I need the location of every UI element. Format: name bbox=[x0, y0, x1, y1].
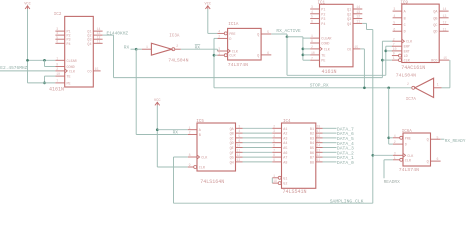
svg-text:IC1A: IC1A bbox=[228, 23, 239, 27]
svg-text:12: 12 bbox=[443, 21, 447, 25]
svg-text:PE: PE bbox=[321, 60, 325, 64]
svg-text:CO: CO bbox=[347, 48, 351, 52]
svg-text:2: 2 bbox=[176, 44, 178, 48]
svg-text:9: 9 bbox=[273, 158, 275, 162]
IC6A pin notQ bbox=[431, 160, 441, 162]
svg-text:QE: QE bbox=[230, 147, 234, 151]
svg-text:2: 2 bbox=[218, 35, 220, 39]
IC9 pin CLR bbox=[392, 59, 399, 61]
svg-text:74AC161N: 74AC161N bbox=[401, 65, 425, 71]
wire STOP_RX to IC1A D and CLR bbox=[214, 37, 217, 39]
svg-text:14: 14 bbox=[443, 7, 447, 11]
svg-text:12: 12 bbox=[356, 15, 360, 19]
svg-text:IC4: IC4 bbox=[283, 120, 291, 124]
IC2 control pins CLEAR COND CLK TE PE bbox=[55, 59, 64, 61]
svg-text:ENT: ENT bbox=[404, 50, 410, 54]
svg-text:15: 15 bbox=[354, 45, 358, 49]
svg-text:11: 11 bbox=[316, 158, 320, 162]
svg-text:1: 1 bbox=[56, 56, 58, 60]
wire VCC rail down left side bbox=[27, 9, 29, 83]
svg-text:1: 1 bbox=[146, 45, 148, 49]
svg-text:READRX: READRX bbox=[384, 179, 401, 185]
svg-text:1: 1 bbox=[218, 51, 220, 55]
wire to IC2 CLEAR pin bbox=[28, 59, 56, 61]
svg-text:Q4: Q4 bbox=[347, 23, 351, 27]
svg-text:9: 9 bbox=[311, 39, 313, 43]
svg-text:PRE: PRE bbox=[405, 137, 411, 141]
svg-text:IC3A: IC3A bbox=[169, 35, 180, 39]
flip-flop IC1A 74LS74N body bbox=[228, 28, 262, 60]
svg-text:12: 12 bbox=[316, 153, 320, 157]
svg-text:7: 7 bbox=[56, 79, 58, 83]
svg-text:COND: COND bbox=[67, 66, 75, 70]
svg-text:QD: QD bbox=[230, 142, 234, 146]
wire RX_ACTIVE down to enable rail bbox=[286, 37, 288, 76]
IC6A pin CLK bbox=[393, 154, 403, 156]
svg-text:B7: B7 bbox=[310, 157, 314, 161]
svg-text:CLEAR: CLEAR bbox=[67, 60, 77, 64]
svg-text:15: 15 bbox=[443, 56, 447, 60]
svg-text:VCC: VCC bbox=[24, 3, 30, 7]
svg-text:4: 4 bbox=[218, 30, 220, 34]
svg-text:1: 1 bbox=[394, 156, 396, 160]
svg-text:74LS74N: 74LS74N bbox=[399, 167, 419, 173]
svg-text:ENP: ENP bbox=[404, 46, 410, 50]
svg-text:1: 1 bbox=[273, 174, 275, 178]
svg-text:Q: Q bbox=[257, 34, 259, 38]
node junction RX bbox=[135, 48, 138, 51]
wire RX to inverter input bbox=[136, 48, 142, 50]
svg-text:CLR: CLR bbox=[229, 55, 235, 59]
IC1 pins P0-P3 bbox=[310, 8, 319, 10]
node junction IC6A CLK branch bbox=[371, 154, 374, 157]
wire IC9 RCO to inverter IC7A input bbox=[449, 60, 451, 88]
svg-text:10: 10 bbox=[393, 47, 397, 51]
flip-flop IC6A 74LS74N body bbox=[403, 133, 431, 166]
svg-text:CO: CO bbox=[87, 70, 91, 74]
svg-text:STOP_RX: STOP_RX bbox=[310, 82, 329, 88]
IC4 enable pins G1 G2 bbox=[272, 177, 278, 179]
IC1A pin CLK bbox=[217, 50, 227, 52]
svg-text:CLK: CLK bbox=[69, 70, 76, 74]
svg-text:7: 7 bbox=[273, 148, 275, 152]
svg-text:CLK: CLK bbox=[201, 157, 208, 161]
svg-text:74LS74N: 74LS74N bbox=[228, 62, 248, 68]
node junction RX_ACTIVE branch bbox=[286, 35, 289, 38]
wire clock input net E2.4576MHZ to IC2 CLK bbox=[0, 70, 55, 72]
svg-text:6: 6 bbox=[267, 51, 269, 55]
wire RX_ACTIVE down to IC1 control pins bbox=[302, 37, 304, 60]
svg-text:CLR: CLR bbox=[405, 159, 411, 163]
wire VCC to IC5 CLR bbox=[157, 166, 188, 168]
svg-text:Q2: Q2 bbox=[347, 13, 351, 17]
svg-text:B: B bbox=[199, 134, 201, 138]
svg-text:IC2: IC2 bbox=[54, 13, 62, 17]
svg-text:RX_ACTIVE: RX_ACTIVE bbox=[276, 28, 301, 34]
svg-text:PRE: PRE bbox=[229, 33, 235, 37]
svg-text:4161N: 4161N bbox=[322, 69, 337, 75]
svg-text:B4: B4 bbox=[310, 142, 314, 146]
svg-text:TE: TE bbox=[321, 54, 325, 58]
IC5 pin CLR bbox=[188, 166, 194, 168]
svg-text:8: 8 bbox=[273, 153, 275, 157]
inverter IC3A 74LS04N bbox=[151, 43, 171, 55]
svg-text:QH: QH bbox=[230, 161, 234, 165]
svg-text:6: 6 bbox=[393, 27, 395, 31]
svg-text:13: 13 bbox=[236, 158, 240, 162]
svg-text:QB: QB bbox=[433, 17, 437, 21]
shift register IC5 74LS164N body bbox=[197, 123, 236, 171]
svg-text:A6: A6 bbox=[283, 152, 287, 156]
IC1A pin CLR bbox=[217, 54, 224, 56]
svg-text:Q3: Q3 bbox=[347, 18, 351, 22]
svg-text:2: 2 bbox=[189, 131, 191, 135]
svg-text:QB: QB bbox=[230, 133, 234, 137]
svg-text:4: 4 bbox=[273, 134, 275, 138]
svg-text:G1: G1 bbox=[283, 177, 287, 181]
svg-text:11: 11 bbox=[236, 148, 240, 152]
wire STOP_RX down to IC6A PRE and D bbox=[388, 88, 390, 144]
svg-text:A2: A2 bbox=[283, 133, 287, 137]
svg-text:5: 5 bbox=[311, 15, 313, 19]
svg-text:QA: QA bbox=[230, 128, 235, 132]
svg-text:SAMPLING_CLK: SAMPLING_CLK bbox=[330, 199, 364, 205]
svg-text:COND: COND bbox=[321, 43, 329, 47]
svg-text:4: 4 bbox=[394, 134, 396, 138]
svg-text:4: 4 bbox=[311, 10, 313, 14]
wire SAMPLING_CLK to IC5 CLK bbox=[174, 156, 188, 158]
IC1A pin notQ bbox=[261, 54, 271, 56]
IC2 pins P0-P3 bbox=[55, 30, 64, 32]
svg-text:6: 6 bbox=[238, 139, 240, 143]
IC9 pin RCO bbox=[439, 59, 449, 61]
IC2 pin CO bbox=[93, 70, 100, 72]
svg-text:5: 5 bbox=[238, 134, 240, 138]
IC6A pin PRE bbox=[393, 137, 400, 139]
svg-text:CLR: CLR bbox=[404, 60, 410, 64]
wire inverter output to IC1A CLK bbox=[181, 48, 218, 50]
wire to IC9 CLR bbox=[382, 59, 392, 61]
svg-text:13: 13 bbox=[356, 10, 360, 14]
svg-text:Q: Q bbox=[427, 161, 429, 165]
svg-text:RCO: RCO bbox=[431, 60, 437, 64]
svg-text:Q: Q bbox=[427, 139, 429, 143]
svg-text:A1: A1 bbox=[283, 128, 287, 132]
wire branch to IC2 TE pin bbox=[45, 75, 56, 77]
svg-text:D: D bbox=[404, 31, 406, 35]
power VCC symbol above IC1A bbox=[205, 6, 210, 9]
wire SAMPLING_CLK to IC6A CLK bbox=[373, 154, 393, 156]
IC1A pin D bbox=[217, 37, 227, 39]
svg-text:13: 13 bbox=[443, 14, 447, 18]
svg-text:6: 6 bbox=[311, 20, 313, 24]
IC1 pin CO bbox=[353, 48, 360, 50]
IC5 pin CLK bbox=[188, 156, 197, 158]
svg-text:B8: B8 bbox=[310, 161, 314, 165]
svg-text:7: 7 bbox=[311, 56, 313, 60]
svg-text:RX: RX bbox=[195, 44, 201, 50]
IC9 pin CLK bbox=[392, 40, 402, 42]
svg-text:5: 5 bbox=[436, 135, 438, 139]
svg-text:RX_READY: RX_READY bbox=[445, 139, 466, 144]
node junction at PE wire bbox=[43, 82, 46, 85]
svg-text:CLK: CLK bbox=[407, 155, 414, 159]
svg-text:VCC: VCC bbox=[154, 99, 160, 103]
wire SAMPLING_CLK vertical bbox=[372, 30, 374, 204]
node junction CO/STOP_RX bbox=[363, 86, 366, 89]
svg-text:1: 1 bbox=[311, 34, 313, 38]
wire E1440KHZ rail to IC9 CLK bbox=[114, 77, 383, 79]
wire IC1 CO to STOP_RX rail bbox=[360, 48, 364, 50]
svg-text:P1: P1 bbox=[321, 9, 325, 13]
IC6A pin CLR bbox=[393, 159, 400, 161]
svg-text:PE: PE bbox=[67, 82, 71, 86]
svg-text:2: 2 bbox=[394, 140, 396, 144]
wire RX down to IC5 B input bbox=[135, 49, 137, 134]
svg-text:8: 8 bbox=[189, 153, 191, 157]
svg-text:17: 17 bbox=[316, 129, 320, 133]
IC1 pins Q0-Q3 bbox=[353, 8, 362, 10]
svg-text:QC: QC bbox=[433, 24, 437, 28]
svg-text:3: 3 bbox=[238, 124, 240, 128]
IC9 pin ENT bbox=[392, 50, 402, 52]
svg-text:6: 6 bbox=[56, 39, 58, 43]
power VCC symbol (top-left) bbox=[25, 6, 30, 9]
svg-text:15: 15 bbox=[316, 139, 320, 143]
IC5 pins QA-QH bbox=[236, 127, 243, 129]
svg-text:16: 16 bbox=[316, 134, 320, 138]
IC9 pin ENP bbox=[392, 45, 402, 47]
svg-text:Q1: Q1 bbox=[347, 9, 351, 13]
svg-text:11: 11 bbox=[356, 20, 360, 24]
svg-text:2: 2 bbox=[311, 45, 313, 49]
node junction IC6A branch bbox=[387, 86, 390, 89]
wire bus IC5 outputs to IC4 inputs bbox=[243, 127, 273, 129]
power VCC symbol above IC5 bbox=[155, 102, 160, 105]
wire VCC to IC1A PRE bbox=[207, 9, 209, 33]
svg-text:1: 1 bbox=[437, 83, 439, 87]
svg-text:CLR: CLR bbox=[199, 167, 205, 171]
node junction VCC/CLEAR bbox=[26, 59, 29, 62]
svg-text:11: 11 bbox=[443, 27, 447, 31]
svg-text:P3: P3 bbox=[321, 18, 325, 22]
svg-text:3: 3 bbox=[273, 129, 275, 133]
IC1 control pins bbox=[310, 37, 319, 39]
svg-text:3: 3 bbox=[311, 5, 313, 9]
IC6A pin Q bbox=[431, 138, 441, 140]
svg-text:9: 9 bbox=[189, 163, 191, 167]
wire enable rail to IC9 ENP/ENT bbox=[287, 74, 386, 76]
wire READRX to IC6A CLR bbox=[384, 159, 393, 161]
svg-text:6: 6 bbox=[273, 144, 275, 148]
svg-text:DATA_0: DATA_0 bbox=[337, 160, 354, 166]
inverter IC7A 74LS04N (pointing left) bbox=[415, 78, 434, 97]
svg-text:IC5: IC5 bbox=[196, 120, 204, 124]
wire branch to IC2 pin 9 bbox=[44, 60, 46, 66]
svg-text:B2: B2 bbox=[310, 133, 314, 137]
svg-text:RX: RX bbox=[124, 45, 130, 51]
svg-text:6: 6 bbox=[436, 157, 438, 161]
node junction CLR bbox=[213, 54, 216, 57]
svg-text:CLEAR: CLEAR bbox=[321, 38, 331, 42]
svg-text:G2: G2 bbox=[283, 183, 287, 187]
svg-text:19: 19 bbox=[273, 179, 277, 183]
svg-text:2: 2 bbox=[407, 82, 409, 86]
svg-text:E2.4576MHZ: E2.4576MHZ bbox=[0, 65, 27, 71]
svg-text:74LS04N: 74LS04N bbox=[168, 58, 188, 64]
svg-text:B1: B1 bbox=[310, 128, 314, 132]
node junction IC5 A bbox=[156, 128, 159, 131]
svg-text:IC1: IC1 bbox=[318, 2, 326, 6]
IC4 pins A1-A8 bbox=[272, 127, 281, 129]
IC5 pin B bbox=[188, 134, 197, 136]
node junction CLR branch bbox=[381, 59, 384, 62]
svg-text:A: A bbox=[404, 11, 407, 15]
IC5 pin A bbox=[188, 129, 197, 131]
svg-text:10: 10 bbox=[236, 144, 240, 148]
svg-text:12: 12 bbox=[236, 153, 240, 157]
wire VCC down to IC5 bbox=[156, 105, 158, 167]
wire STOP_RX rail bbox=[214, 87, 412, 89]
svg-text:LD: LD bbox=[404, 55, 408, 59]
IC9 pins QA-QD bbox=[439, 10, 448, 12]
svg-text:2: 2 bbox=[273, 124, 275, 128]
svg-text:QD: QD bbox=[433, 31, 437, 35]
svg-text:4: 4 bbox=[393, 14, 395, 18]
svg-text:1: 1 bbox=[393, 56, 395, 60]
svg-text:9: 9 bbox=[393, 52, 395, 56]
wire data output stubs and labels bbox=[323, 127, 337, 129]
svg-text:QF: QF bbox=[230, 152, 234, 156]
svg-text:A: A bbox=[199, 129, 202, 133]
svg-text:E1440KHZ: E1440KHZ bbox=[107, 30, 129, 36]
svg-text:4: 4 bbox=[238, 129, 240, 133]
svg-text:D: D bbox=[405, 144, 407, 148]
svg-text:QC: QC bbox=[230, 137, 234, 141]
svg-text:15: 15 bbox=[95, 67, 99, 71]
wire RX input stub bbox=[131, 48, 137, 50]
wire VCC to IC5 A bbox=[157, 129, 188, 131]
svg-text:IC7A: IC7A bbox=[406, 98, 417, 102]
svg-text:CLK: CLK bbox=[406, 41, 413, 45]
svg-text:18: 18 bbox=[316, 124, 320, 128]
wire E1440KHZ up to IC9 CLK bbox=[381, 41, 383, 77]
svg-text:A4: A4 bbox=[283, 142, 287, 146]
svg-text:Q: Q bbox=[257, 54, 259, 58]
svg-text:B6: B6 bbox=[310, 152, 314, 156]
svg-text:VCC: VCC bbox=[205, 3, 211, 7]
counter IC9 74AC161N body bbox=[402, 4, 439, 62]
svg-text:RX: RX bbox=[173, 130, 179, 136]
svg-text:B: B bbox=[404, 17, 406, 21]
svg-text:C: C bbox=[404, 24, 406, 28]
svg-text:2: 2 bbox=[393, 37, 395, 41]
svg-text:5: 5 bbox=[393, 21, 395, 25]
svg-text:B3: B3 bbox=[310, 137, 314, 141]
IC9 pins A-D bbox=[393, 10, 402, 12]
svg-text:10: 10 bbox=[56, 72, 60, 76]
svg-text:D: D bbox=[229, 38, 231, 42]
wire RX_READY from IC6A Q bbox=[441, 138, 445, 140]
wire E1440KHZ from IC2 Q1 bbox=[103, 34, 114, 36]
svg-text:1: 1 bbox=[189, 126, 191, 130]
buffer IC4 74LS541N body bbox=[282, 123, 316, 188]
svg-text:5: 5 bbox=[273, 139, 275, 143]
counter IC1 4161N body bbox=[320, 4, 354, 67]
svg-text:74LS164N: 74LS164N bbox=[200, 179, 224, 185]
svg-text:74LS541N: 74LS541N bbox=[283, 189, 307, 195]
svg-text:A8: A8 bbox=[283, 161, 287, 165]
svg-text:P4: P4 bbox=[321, 23, 325, 27]
wire VCC to IC2 PE pin bbox=[28, 82, 56, 84]
IC4 pins B1-B8 bbox=[316, 127, 323, 129]
svg-text:A3: A3 bbox=[283, 137, 287, 141]
svg-text:TE: TE bbox=[67, 76, 71, 80]
svg-text:4161N: 4161N bbox=[49, 87, 64, 93]
svg-text:5: 5 bbox=[267, 30, 269, 34]
IC6A pin D bbox=[393, 143, 403, 145]
IC1A pin PRE bbox=[217, 32, 224, 34]
IC9 pin LD bbox=[392, 55, 399, 57]
svg-text:A7: A7 bbox=[283, 157, 287, 161]
svg-text:14: 14 bbox=[316, 144, 320, 148]
svg-text:3: 3 bbox=[394, 151, 396, 155]
svg-text:2: 2 bbox=[56, 67, 58, 71]
IC1A pin Q bbox=[261, 33, 271, 35]
svg-text:IC6A: IC6A bbox=[402, 130, 413, 134]
IC2 pins Q0-Q3 bbox=[93, 30, 102, 32]
wire IC1 Q3 to sampling divider chain bbox=[362, 22, 366, 24]
svg-text:P2: P2 bbox=[321, 13, 325, 17]
svg-text:IC9: IC9 bbox=[400, 1, 408, 5]
svg-text:11: 11 bbox=[97, 39, 101, 43]
wire G1-G2 tie bbox=[271, 178, 273, 183]
svg-text:B5: B5 bbox=[310, 147, 314, 151]
svg-text:P4: P4 bbox=[67, 43, 71, 47]
svg-text:CLK: CLK bbox=[324, 48, 331, 52]
wire RX_ACTIVE from IC1A Q bbox=[271, 33, 287, 35]
svg-text:QA: QA bbox=[433, 11, 438, 15]
svg-text:3: 3 bbox=[393, 7, 395, 11]
svg-text:Q4: Q4 bbox=[87, 43, 91, 47]
svg-text:7: 7 bbox=[393, 42, 395, 46]
svg-text:13: 13 bbox=[316, 148, 320, 152]
svg-text:14: 14 bbox=[356, 5, 360, 9]
counter IC2 4161N body bbox=[65, 16, 94, 87]
svg-text:10: 10 bbox=[311, 51, 315, 55]
svg-text:A5: A5 bbox=[283, 147, 287, 151]
svg-text:74LS04N: 74LS04N bbox=[396, 73, 416, 79]
wire SAMPLING_CLK bottom rail bbox=[174, 202, 373, 204]
svg-text:9: 9 bbox=[56, 63, 58, 67]
svg-text:QG: QG bbox=[230, 157, 234, 161]
